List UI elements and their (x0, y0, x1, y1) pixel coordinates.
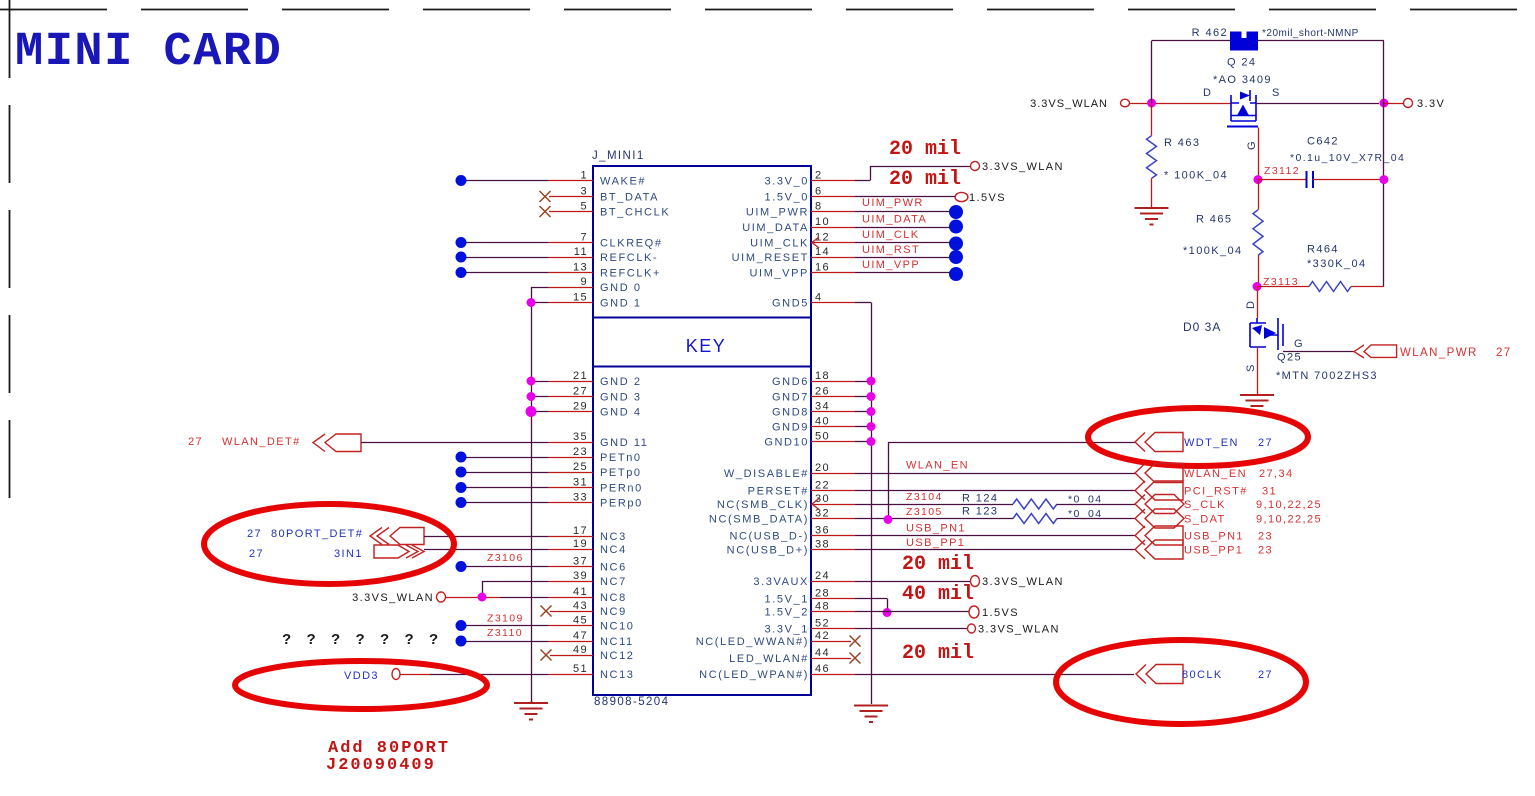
wire pin45 NC10 (466, 625, 548, 627)
wire pin26 gnd (811, 396, 855, 398)
no-connect X pin43 (541, 606, 552, 617)
jumper R462 body (1230, 38, 1258, 51)
svg-text:15: 15 (573, 292, 588, 304)
svg-text:WLAN_PWR: WLAN_PWR (1400, 347, 1478, 359)
svg-text:9,10,22,25: 9,10,22,25 (1256, 499, 1322, 511)
wire pin6 1.5V_0 (811, 196, 855, 198)
svg-text:34: 34 (815, 401, 830, 413)
wire pin23 PETn0 (466, 457, 548, 459)
input chevron pin 12 UIM_CLK (812, 237, 819, 248)
svg-text:NC(SMB_CLK): NC(SMB_CLK) (717, 499, 809, 511)
KEY divider top (593, 317, 811, 319)
wire 3.3VS_WLAN to NC8 (446, 597, 501, 599)
svg-text:R464: R464 (1307, 244, 1339, 256)
svg-text:23: 23 (573, 446, 588, 458)
svg-text:27: 27 (249, 548, 264, 560)
input chevron pin 30 SMB_CLK (812, 499, 819, 510)
svg-text:3.3V_1: 3.3V_1 (765, 624, 809, 636)
svg-text:36: 36 (815, 525, 830, 537)
svg-text:Z3106: Z3106 (487, 552, 524, 564)
svg-text:GND5: GND5 (772, 298, 809, 310)
svg-text:3.3V_0: 3.3V_0 (765, 176, 809, 188)
svg-text:WLAN_EN: WLAN_EN (1184, 468, 1247, 480)
svg-text:20: 20 (815, 462, 830, 474)
svg-text:8: 8 (815, 201, 823, 213)
wire pin22 to PCI_RST connector (811, 490, 855, 492)
svg-text:S_DAT: S_DAT (1184, 514, 1226, 526)
svg-text:3.3V: 3.3V (1417, 98, 1445, 110)
svg-text:Q25: Q25 (1277, 352, 1302, 364)
svg-text:?: ? (380, 631, 391, 648)
svg-text:Z3112: Z3112 (1264, 165, 1300, 177)
svg-text:*100K_04: *100K_04 (1183, 245, 1243, 257)
svg-text:23: 23 (1258, 531, 1273, 543)
wire WDT_EN vertical branch (888, 442, 890, 519)
node pin16 dot (949, 267, 963, 281)
wire 3.3VS_WLAN to Q24 D (1130, 103, 1232, 105)
svg-text:24: 24 (815, 570, 830, 582)
node pin31 dot (456, 482, 467, 493)
svg-text:?: ? (331, 631, 342, 648)
sheet border left (9, 0, 11, 500)
junction NC8 3.3VS_WLAN (478, 593, 487, 602)
svg-text:?: ? (429, 631, 440, 648)
red ellipse around 80CLK (1056, 640, 1306, 724)
capacitor C642 plates (1307, 171, 1314, 188)
svg-text:1.5VS: 1.5VS (969, 192, 1006, 204)
svg-text:S: S (1272, 87, 1281, 99)
svg-text:D: D (1245, 300, 1257, 309)
transistor Q25 NMOS (1250, 318, 1283, 350)
svg-text:NC(LED_WWAN#): NC(LED_WWAN#) (696, 636, 809, 648)
wire WDT_EN horizontal (888, 442, 1135, 444)
junction GND1 bus (527, 298, 536, 307)
junction pin40 bus (867, 422, 876, 431)
junction pin34 bus (867, 407, 876, 416)
junction pin18 bus (867, 377, 876, 386)
svg-text:52: 52 (815, 618, 830, 630)
svg-text:Z3104: Z3104 (906, 491, 943, 503)
svg-text:PETn0: PETn0 (600, 452, 642, 464)
svg-text:27: 27 (1258, 669, 1273, 681)
svg-text:3.3VS_WLAN: 3.3VS_WLAN (1030, 98, 1108, 110)
KEY divider bottom (593, 366, 811, 368)
off-page connector 80PORT_DET# (390, 528, 424, 545)
wire Q25 gate to WLAN_PWR (1283, 351, 1354, 353)
svg-text:*AO 3409: *AO 3409 (1213, 74, 1272, 86)
off-page connector 3IN1 (right pointing) (374, 545, 409, 558)
svg-text:USB_PN1: USB_PN1 (1184, 531, 1244, 543)
svg-text:20 mil: 20 mil (902, 642, 974, 665)
svg-text:GND 0: GND 0 (600, 282, 642, 294)
off-page connector USB_PN1 (1145, 526, 1183, 545)
svg-text:S: S (1245, 363, 1257, 372)
terminal circle 3.3VS_WLAN input (1121, 99, 1130, 107)
svg-text:PETp0: PETp0 (600, 467, 642, 479)
svg-text:1: 1 (580, 170, 588, 182)
svg-text:9: 9 (580, 276, 588, 288)
svg-text:7: 7 (580, 232, 588, 244)
svg-text:R 124: R 124 (962, 493, 998, 505)
svg-text:1.5V_1: 1.5V_1 (765, 594, 809, 606)
svg-text:UIM_PWR: UIM_PWR (862, 197, 924, 209)
off-page connector WLAN_EN (1145, 464, 1183, 483)
terminal circle 3.3VS_WLAN (437, 592, 446, 602)
wire pin10 UIM_DATA (811, 227, 855, 229)
wire right vertical R462 to R464 (1383, 41, 1385, 103)
svg-text:47: 47 (573, 630, 588, 642)
svg-text:PERn0: PERn0 (600, 483, 643, 495)
svg-text:27: 27 (1258, 437, 1273, 449)
svg-text:31: 31 (1262, 486, 1277, 498)
svg-text:VDD3: VDD3 (344, 670, 379, 682)
svg-text:WLAN_EN: WLAN_EN (906, 460, 969, 472)
ground R463 (1135, 208, 1169, 225)
red ellipse around WDT_EN (1088, 408, 1308, 466)
svg-text:4: 4 (815, 292, 823, 304)
svg-text:*330K_04: *330K_04 (1307, 258, 1367, 270)
svg-text:USB_PP1: USB_PP1 (1184, 545, 1243, 557)
svg-text:27: 27 (1496, 347, 1512, 359)
svg-text:27,34: 27,34 (1259, 468, 1294, 480)
svg-text:48: 48 (815, 601, 830, 613)
svg-text:J_MINI1: J_MINI1 (592, 150, 645, 162)
wire pin25 PETp0 (466, 472, 548, 474)
node pin37 dot (456, 561, 467, 572)
svg-text:21: 21 (573, 370, 588, 382)
svg-text:51: 51 (573, 663, 588, 675)
svg-text:37: 37 (573, 556, 588, 568)
svg-text:?: ? (282, 631, 293, 648)
svg-text:1.5V_0: 1.5V_0 (765, 192, 809, 204)
svg-text:GND 1: GND 1 (600, 298, 642, 310)
svg-text:?: ? (307, 631, 318, 648)
svg-text:NC(SMB_DATA): NC(SMB_DATA) (709, 514, 809, 526)
svg-text:NC6: NC6 (600, 562, 627, 574)
no-connect X pin49 (541, 650, 552, 661)
svg-text:50: 50 (815, 431, 830, 443)
no-connect X pin5 (540, 206, 551, 217)
wire to 3.3V circle (1384, 103, 1404, 105)
wire pin8 UIM_PWR (811, 211, 855, 213)
junction C642 right (1379, 175, 1388, 184)
svg-text:NC10: NC10 (600, 621, 635, 633)
svg-text:27: 27 (573, 386, 588, 398)
wire pin5 (549, 211, 593, 213)
svg-text:1.5V_2: 1.5V_2 (765, 607, 809, 619)
wire pin20 to WLAN_EN connector (811, 473, 855, 475)
wire R462 left vertical (1151, 41, 1153, 103)
junction WDT_EN on SMB_DATA (884, 515, 893, 524)
terminal circle 3.3VS_WLAN pin2 (971, 162, 980, 171)
svg-text:UIM_VPP: UIM_VPP (750, 268, 810, 280)
wire pin17 NC3 from 80PORT_DET# (424, 536, 548, 538)
svg-text:GND7: GND7 (772, 392, 809, 404)
svg-text:35: 35 (573, 431, 588, 443)
svg-text:BT_DATA: BT_DATA (600, 192, 659, 204)
svg-text:WAKE#: WAKE# (600, 176, 646, 188)
svg-text:UIM_DATA: UIM_DATA (742, 222, 809, 234)
svg-text:40: 40 (815, 416, 830, 428)
wire 1.5V branch vertical (887, 599, 889, 612)
junction pin50 bus (867, 437, 876, 446)
svg-text:80CLK: 80CLK (1182, 669, 1223, 681)
svg-text:G: G (1294, 338, 1304, 350)
svg-text:GND 4: GND 4 (600, 407, 642, 419)
svg-text:NC12: NC12 (600, 650, 635, 662)
svg-text:USB_PP1: USB_PP1 (906, 537, 965, 549)
svg-text:39: 39 (573, 570, 588, 582)
svg-text:12: 12 (815, 232, 830, 244)
svg-text:C642: C642 (1307, 136, 1339, 148)
svg-text:1.5VS: 1.5VS (982, 607, 1019, 619)
svg-text:NC4: NC4 (600, 544, 627, 556)
svg-text:31: 31 (573, 477, 588, 489)
svg-text:18: 18 (815, 370, 830, 382)
svg-text:UIM_PWR: UIM_PWR (746, 207, 809, 219)
wire pin52 3.3V_1 (811, 628, 855, 630)
svg-text:G: G (1246, 140, 1258, 150)
svg-text:WLAN_DET#: WLAN_DET# (222, 436, 301, 448)
wire pin27 GND3 (531, 396, 548, 398)
terminal circle 3.3VS_WLAN pin24 (971, 576, 980, 587)
wire pin3 (549, 196, 593, 198)
svg-text:NC8: NC8 (600, 592, 627, 604)
svg-text:*0_04: *0_04 (1068, 494, 1102, 506)
wire pin2 3.3V_0 (811, 180, 855, 182)
wire pin39 NC7 (482, 581, 548, 583)
svg-text:UIM_CLK: UIM_CLK (862, 229, 919, 241)
svg-text:26: 26 (815, 386, 830, 398)
svg-text:GND9: GND9 (772, 422, 809, 434)
wire pin40 gnd (811, 426, 855, 428)
svg-text:UIM_RST: UIM_RST (862, 244, 920, 256)
wire pin51 NC13 from VDD3 (400, 674, 430, 676)
node pin11 dot (456, 252, 467, 263)
off-page connector PCI_RST# (1145, 481, 1183, 500)
svg-text:28: 28 (815, 588, 830, 600)
wire pin12 UIM_CLK (811, 242, 855, 244)
off-page connector USB_PP1 (1145, 540, 1183, 559)
wire pin36 to USB_PN1 connector (811, 535, 855, 537)
node pin47 dot (456, 636, 467, 647)
svg-text:GND 2: GND 2 (600, 376, 642, 388)
no-connect X pin3 (540, 191, 551, 202)
svg-text:42: 42 (815, 630, 830, 642)
node pin45 dot (456, 620, 467, 631)
svg-text:20 mil: 20 mil (889, 138, 961, 161)
svg-text:GND8: GND8 (772, 407, 809, 419)
node pin7 dot (456, 237, 467, 248)
wire Q25 S to ground (1257, 347, 1259, 395)
svg-text:BT_CHCLK: BT_CHCLK (600, 207, 670, 219)
svg-text:41: 41 (573, 586, 588, 598)
terminal circle 1.5VS pin48 (969, 606, 979, 618)
svg-text:UIM_DATA: UIM_DATA (862, 214, 927, 226)
svg-text:17: 17 (573, 525, 588, 537)
svg-text:R 463: R 463 (1164, 137, 1200, 149)
junction 3.3V node (1379, 99, 1388, 108)
junction GND3 bus (527, 392, 536, 401)
off-page connector S_CLK (1145, 495, 1184, 514)
svg-text:Q 24: Q 24 (1227, 57, 1256, 69)
svg-text:NC7: NC7 (600, 576, 627, 588)
wire pin37 NC6 (466, 566, 548, 568)
ground right bus (854, 706, 888, 723)
svg-text:43: 43 (573, 600, 588, 612)
svg-text:11: 11 (574, 246, 588, 258)
junction R462 left leg (1147, 99, 1156, 108)
svg-text:27: 27 (188, 436, 203, 448)
svg-text:UIM_RESET: UIM_RESET (732, 252, 809, 264)
resistor R124 (811, 504, 855, 506)
svg-text:3.3VS_WLAN: 3.3VS_WLAN (982, 161, 1064, 173)
red ellipse around 80PORT_DET# (204, 504, 454, 584)
svg-text:14: 14 (815, 246, 830, 258)
right GND bus vertical (871, 303, 873, 705)
off-page connector S_DAT (1145, 509, 1184, 528)
wire pin38 to USB_PP1 connector (811, 549, 855, 551)
svg-text:NC(USB_D+): NC(USB_D+) (727, 545, 809, 557)
resistor R464 (1257, 286, 1309, 288)
resistor R465 (1258, 180, 1260, 210)
sheet border top (0, 9, 1535, 11)
svg-text:40 mil: 40 mil (902, 583, 974, 606)
svg-text:Z3109: Z3109 (487, 613, 524, 625)
svg-text:UIM_CLK: UIM_CLK (750, 238, 809, 250)
svg-text:W_DISABLE#: W_DISABLE# (724, 468, 809, 480)
wire Q24 gate down (1258, 128, 1260, 180)
transistor Q24 PMOS (1231, 90, 1256, 121)
svg-text:NC9: NC9 (600, 606, 627, 618)
junction 1.5VS (883, 608, 892, 617)
wire pin18 gnd (811, 381, 855, 383)
node pin10 dot (949, 220, 963, 234)
svg-text:GND10: GND10 (764, 437, 809, 449)
wire pin13 REFCLK+ (466, 272, 548, 274)
svg-text:27: 27 (247, 528, 262, 540)
svg-text:WDT_EN: WDT_EN (1184, 437, 1239, 449)
wire NC7 branch vertical (482, 581, 484, 597)
svg-text:32: 32 (815, 508, 830, 520)
svg-text:2: 2 (815, 170, 823, 182)
wire pin48 1.5V_2 (811, 611, 855, 613)
connector J_MINI1 outline (593, 166, 811, 695)
svg-text:*MTN 7002ZHS3: *MTN 7002ZHS3 (1276, 370, 1378, 382)
svg-text:16: 16 (815, 262, 830, 274)
wire pin9 GND0 to left gnd bus (531, 287, 548, 289)
node pin1 stub dot (456, 175, 467, 186)
svg-text:NC(USB_D-): NC(USB_D-) (729, 531, 809, 543)
svg-text:23: 23 (1258, 545, 1273, 557)
wire pin31 PERn0 (466, 487, 548, 489)
node pin14 dot (949, 250, 963, 264)
svg-text:3.3VS_WLAN: 3.3VS_WLAN (982, 576, 1064, 588)
svg-text:19: 19 (573, 538, 588, 550)
gate bar Q24 (1227, 126, 1258, 128)
junction GND2 bus (527, 377, 536, 386)
svg-text:?: ? (356, 631, 367, 648)
svg-text:30: 30 (815, 493, 830, 505)
left GND bus vertical (531, 287, 533, 701)
svg-text:22: 22 (815, 480, 830, 492)
svg-text:*0.1u_10V_X7R_04: *0.1u_10V_X7R_04 (1290, 152, 1405, 164)
svg-text:PERSET#: PERSET# (748, 486, 809, 498)
svg-text:38: 38 (815, 539, 830, 551)
node pin33 dot (456, 497, 467, 508)
junction Z3113 (1253, 282, 1262, 291)
wire pin49 NC12 (550, 655, 593, 657)
svg-text:20 mil: 20 mil (889, 168, 961, 191)
capacitor C642 left wire (1258, 179, 1307, 181)
svg-text:J20090409: J20090409 (326, 756, 436, 775)
off-page connector WLAN_DET# (325, 434, 361, 452)
svg-text:33: 33 (573, 492, 588, 504)
svg-text:5: 5 (580, 201, 588, 213)
wire pin4 GND5 to right gnd bus (811, 302, 855, 304)
svg-text:R 462: R 462 (1192, 27, 1228, 39)
svg-text:80PORT_DET#: 80PORT_DET# (271, 528, 363, 540)
svg-text:10: 10 (815, 216, 830, 228)
svg-text:KEY: KEY (686, 336, 727, 356)
red ellipse around VDD3 (235, 661, 487, 709)
ground Q25 (1240, 395, 1274, 412)
svg-text:NC3: NC3 (600, 531, 627, 543)
svg-text:46: 46 (815, 663, 830, 675)
svg-text:MINI CARD: MINI CARD (15, 26, 282, 79)
svg-text:* 100K_04: * 100K_04 (1164, 170, 1228, 182)
svg-text:3IN1: 3IN1 (334, 548, 363, 560)
svg-text:Z3110: Z3110 (487, 627, 523, 639)
svg-text:?: ? (405, 631, 416, 648)
svg-text:13: 13 (573, 262, 588, 274)
svg-text:3.3VAUX: 3.3VAUX (753, 576, 809, 588)
wire pin43 NC9 (550, 611, 593, 613)
svg-text:D0 3A: D0 3A (1183, 320, 1221, 334)
terminal circle 3.3VS_WLAN pin52 (968, 624, 976, 633)
capacitor C642 right wire (1313, 179, 1384, 181)
node pin23 dot (456, 452, 467, 463)
svg-text:REFCLK-: REFCLK- (600, 252, 658, 264)
terminal circle 3.3V (1404, 99, 1413, 108)
svg-text:S_CLK: S_CLK (1184, 499, 1226, 511)
wire pin21 GND2 (531, 381, 548, 383)
wire pin7 CLKREQ# (466, 242, 548, 244)
wire pin46 to 80CLK connector (811, 674, 855, 676)
off-page connector WLAN_PWR (1364, 345, 1397, 358)
terminal circle VDD3 (392, 669, 400, 680)
wire pin44 (811, 658, 851, 660)
wire pin42 (811, 641, 851, 643)
junction Z3112 (1254, 175, 1263, 184)
svg-text:3.3VS_WLAN: 3.3VS_WLAN (978, 624, 1060, 636)
wire Z3113 to Q25 D (1257, 287, 1259, 319)
svg-text:R 123: R 123 (962, 506, 998, 518)
svg-text:NC(LED_WPAN#): NC(LED_WPAN#) (699, 669, 809, 681)
resistor R463 (1151, 103, 1153, 136)
svg-text:CLKREQ#: CLKREQ# (600, 238, 663, 250)
node pin8 dot (949, 205, 963, 219)
svg-text:GND 3: GND 3 (600, 392, 642, 404)
svg-text:LED_WLAN#: LED_WLAN# (729, 653, 809, 665)
svg-text:88908-5204: 88908-5204 (594, 696, 669, 708)
svg-text:29: 29 (573, 401, 588, 413)
wire pin14 UIM_RESET (811, 257, 855, 259)
svg-text:PERp0: PERp0 (600, 498, 643, 510)
wire pin15 GND1 (531, 302, 548, 304)
svg-text:49: 49 (573, 644, 588, 656)
svg-text:44: 44 (815, 647, 830, 659)
